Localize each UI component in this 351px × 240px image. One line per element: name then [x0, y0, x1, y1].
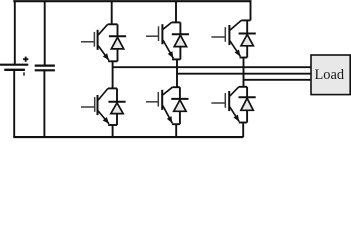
Q4 emitter arrowhead — [103, 117, 109, 124]
wire: leg3 rail drop (rail right corner) — [250, 1, 252, 20]
diode D6 top lead — [179, 87, 181, 99]
wire: battery bottom lead — [13, 70, 15, 137]
diode D3 cathode bar — [172, 33, 189, 35]
diode D6 bottom lead — [179, 111, 181, 124]
wire: Q4 bottom jog — [108, 124, 117, 126]
Q4 body bar — [97, 95, 99, 115]
Q5 gate lead — [211, 36, 225, 38]
diode D6 triangle — [174, 100, 186, 111]
Q4 gate lead — [81, 106, 95, 108]
Q3 emitter arrowhead — [168, 51, 174, 58]
wire: battery top lead — [14, 1, 16, 64]
wire: leg2 rail drop — [175, 1, 177, 22]
Q3 gate bar — [158, 26, 160, 41]
diode D4 cathode bar — [108, 101, 125, 103]
Q5 emitter arrowhead — [235, 50, 241, 57]
diode D3 triangle — [174, 35, 186, 46]
Q1 gate bar — [93, 32, 95, 47]
wire: Q6 top jog — [172, 86, 180, 88]
diode D1 top lead — [117, 24, 119, 36]
wire: leg2 midpoint link — [176, 59, 178, 87]
Q3 collector diagonal — [163, 22, 172, 29]
wire: Q5 bottom jog — [240, 57, 248, 59]
Q1 emitter diagonal — [98, 46, 109, 61]
diode D1 bottom lead — [117, 49, 119, 61]
Q3 body bar — [161, 24, 163, 44]
diode D4 top lead — [116, 88, 118, 101]
battery + label — [23, 57, 28, 62]
wire: leg1 rail drop — [111, 1, 113, 24]
Q2 gate lead — [211, 102, 225, 104]
Q1 gate lead — [81, 41, 94, 43]
Q1 emitter arrowhead — [103, 53, 109, 60]
diode D5 triangle — [241, 35, 253, 46]
three-phase inverter bridge schematic — [0, 0, 351, 143]
Q4 emitter diagonal — [98, 111, 109, 124]
Q1 collector diagonal — [98, 24, 108, 35]
wire: leg1 bottom drop — [112, 125, 114, 137]
diode D6 cathode bar — [171, 98, 188, 100]
wire: capacitor top lead — [44, 1, 46, 65]
diode D1 cathode bar — [109, 35, 126, 37]
Q2 collector diagonal — [230, 87, 239, 96]
Q6 gate bar — [157, 92, 159, 107]
Q6 collector diagonal — [163, 87, 173, 95]
diode D3 bottom lead — [179, 47, 181, 60]
wire: bottom DC rail (-) — [13, 136, 243, 138]
diode D2 top lead — [246, 87, 248, 97]
Q5 emitter diagonal — [230, 41, 240, 57]
wire: leg2 bottom drop — [175, 124, 177, 137]
diode D2 bottom lead — [246, 110, 248, 122]
load box — [311, 55, 350, 95]
diode D2 triangle — [241, 98, 253, 110]
capacitor C1 bottom plate — [35, 69, 55, 71]
Q2 emitter arrowhead — [233, 115, 239, 122]
capacitor C1 top plate — [35, 64, 55, 66]
Q5 gate bar — [224, 27, 226, 42]
wire: leg3 midpoint link — [243, 58, 245, 87]
Q4 gate bar — [94, 97, 96, 112]
Q6 emitter diagonal — [163, 106, 173, 124]
Q2 body bar — [228, 91, 230, 111]
battery V1 positive plate — [0, 64, 28, 66]
wire: leg1 midpoint link — [112, 61, 114, 88]
Q6 body bar — [161, 90, 163, 110]
Q3 emitter diagonal — [163, 40, 173, 58]
Q6 emitter arrowhead — [167, 116, 173, 123]
wire: phase A line to load — [113, 66, 311, 68]
battery V1 negative plate — [4, 69, 25, 71]
Q6 gate lead — [146, 101, 158, 103]
diode D1 triangle — [111, 37, 123, 49]
svg-text:Load: Load — [315, 67, 345, 83]
wire: phase C line to load — [244, 79, 312, 81]
diode D5 top lead — [246, 20, 248, 33]
wire: top DC rail (+) — [13, 0, 251, 2]
wire: Q2 top jog — [239, 86, 247, 88]
wire: Q1 bottom jog — [108, 60, 117, 62]
wire: Q3 top jog — [172, 21, 181, 23]
Q3 gate lead — [146, 35, 159, 37]
Q5 collector diagonal — [230, 20, 241, 30]
wire: Q4 top jog — [108, 87, 117, 89]
Q2 gate bar — [224, 93, 226, 108]
Q2 emitter diagonal — [230, 107, 239, 122]
wire: Q6 bottom jog — [172, 123, 180, 125]
wire: Q2 bottom jog — [239, 122, 247, 124]
diode D5 cathode bar — [239, 33, 256, 35]
diode D5 bottom lead — [246, 46, 248, 58]
diode D2 cathode bar — [239, 96, 256, 98]
diode D3 top lead — [179, 22, 181, 34]
diode D4 triangle — [111, 103, 123, 114]
wire: capacitor bottom lead — [43, 70, 45, 137]
Q4 collector diagonal — [98, 88, 108, 100]
wire: Q3 bottom jog — [172, 58, 180, 60]
Q5 body bar — [228, 25, 230, 45]
diode D4 bottom lead — [116, 114, 118, 125]
battery - label (vertical tick) — [23, 72, 25, 75]
wire: Q5 top jog — [241, 19, 250, 21]
Q1 body bar — [97, 30, 99, 50]
wire: phase B line to load — [177, 73, 311, 75]
wire: Q1 top jog — [108, 23, 118, 25]
wire: leg3 bottom drop — [242, 123, 244, 138]
